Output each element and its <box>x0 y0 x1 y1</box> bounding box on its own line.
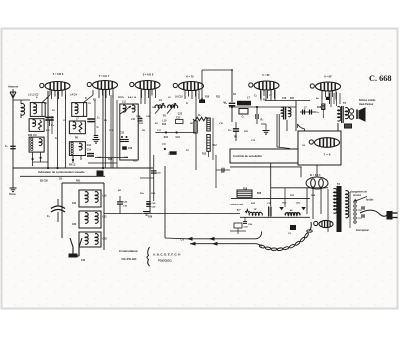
svg-text:~ valeurs mod.: ~ valeurs mod. <box>229 204 244 206</box>
svg-text:T = 6 E 7: T = 6 E 7 <box>99 74 110 78</box>
svg-text:6 = 6F: 6 = 6F <box>324 75 332 79</box>
svg-text:R26: R26 <box>148 217 153 219</box>
svg-text:C26: C26 <box>128 148 133 150</box>
svg-text:C₉: C₉ <box>170 106 173 108</box>
svg-text:Interrupteur: Interrupteur <box>356 229 369 232</box>
svg-text:(31): (31) <box>296 203 300 205</box>
svg-text:R₃: R₃ <box>261 119 264 122</box>
svg-text:5 = 6F: 5 = 6F <box>262 73 270 77</box>
svg-text:PO¦GO¦OC¦: PO¦GO¦OC¦ <box>158 259 172 263</box>
svg-text:Contrôle de sensibilité: Contrôle de sensibilité <box>233 154 262 158</box>
svg-text:C₉: C₉ <box>228 129 231 132</box>
svg-text:C22: C22 <box>120 133 125 135</box>
svg-text:6 = 75: 6 = 75 <box>186 75 194 79</box>
svg-text:Terre: Terre <box>9 192 16 196</box>
svg-text:C₆: C₆ <box>254 95 257 98</box>
svg-text:G: G <box>186 103 188 105</box>
svg-text:R13: R13 <box>202 154 207 156</box>
svg-text:R36: R36 <box>257 193 262 195</box>
svg-text:R18: R18 <box>317 107 322 109</box>
svg-text:Indicateur de syntonisation vi: Indicateur de syntonisation visuelle <box>38 170 85 174</box>
svg-text:B2 C30: B2 C30 <box>40 181 49 183</box>
svg-text:C12: C12 <box>87 145 92 147</box>
svg-text:C14: C14 <box>87 149 92 152</box>
svg-text:fusible: fusible <box>366 200 374 202</box>
svg-text:R₉: R₉ <box>263 99 266 102</box>
svg-text:changement de: changement de <box>350 191 368 194</box>
svg-text:OC-PO-GO: OC-PO-GO <box>122 257 138 261</box>
svg-text:R11: R11 <box>133 160 138 162</box>
svg-text:C. 668: C. 668 <box>369 74 392 83</box>
svg-text:R16: R16 <box>243 188 248 190</box>
svg-text:7 = 6: 7 = 6 <box>324 153 331 157</box>
svg-text:R44: R44 <box>108 158 113 161</box>
svg-text:R4 L3: R4 L3 <box>69 164 76 167</box>
svg-text:C31: C31 <box>72 203 77 205</box>
svg-text:C23: C23 <box>178 114 183 116</box>
svg-text:5 = 6 D 6: 5 = 6 D 6 <box>53 72 64 76</box>
svg-text:C₇: C₇ <box>97 126 100 129</box>
svg-text:R41: R41 <box>76 180 81 183</box>
svg-text:R17: R17 <box>290 98 295 100</box>
svg-text:C2B: C2B <box>146 116 151 118</box>
svg-text:R₆: R₆ <box>198 115 201 117</box>
svg-text:C₆: C₆ <box>51 124 54 127</box>
svg-text:C40: C40 <box>81 259 86 262</box>
svg-text:B = 6 2 1: B = 6 2 1 <box>310 173 321 177</box>
svg-text:Bobine mobile: Bobine mobile <box>359 99 376 102</box>
svg-text:C24: C24 <box>176 136 181 139</box>
svg-text:L6 C₉: L6 C₉ <box>118 97 124 99</box>
svg-text:C₁: C₁ <box>5 145 8 148</box>
svg-text:C33: C33 <box>103 239 108 241</box>
svg-text:A. B. C. D. E. F. G. H: A. B. C. D. E. F. G. H <box>153 253 180 257</box>
svg-text:C₂: C₂ <box>47 215 50 218</box>
svg-text:3 = 6 D 6: 3 = 6 D 6 <box>143 73 154 77</box>
svg-text:R10: R10 <box>162 124 167 126</box>
svg-text:C₈: C₈ <box>55 138 58 140</box>
svg-text:C₃: C₃ <box>242 116 245 119</box>
svg-text:tension: tension <box>353 194 362 197</box>
svg-text:L4 C4: L4 C4 <box>70 94 77 97</box>
svg-text:Antenne: Antenne <box>8 86 19 89</box>
svg-text:C₄: C₄ <box>97 118 100 120</box>
svg-text:C15: C15 <box>282 98 287 100</box>
svg-text:FU: FU <box>163 144 166 146</box>
svg-text:C32: C32 <box>72 224 77 226</box>
svg-text:R14: R14 <box>164 136 169 139</box>
svg-text:B+F: B+F <box>237 210 242 212</box>
svg-text:R11: R11 <box>216 97 221 99</box>
svg-text:Haut-Parleur: Haut-Parleur <box>359 103 373 106</box>
svg-text:L6 C10: L6 C10 <box>175 97 183 99</box>
svg-text:4.4 C.I.4: 4.4 C.I.4 <box>128 96 137 99</box>
svg-text:R10: R10 <box>205 97 210 99</box>
svg-text:C₅: C₅ <box>139 117 142 119</box>
svg-text:Commutateur: Commutateur <box>119 249 139 253</box>
svg-text:C21: C21 <box>176 117 181 119</box>
svg-text:R40 L11: R40 L11 <box>28 134 37 137</box>
